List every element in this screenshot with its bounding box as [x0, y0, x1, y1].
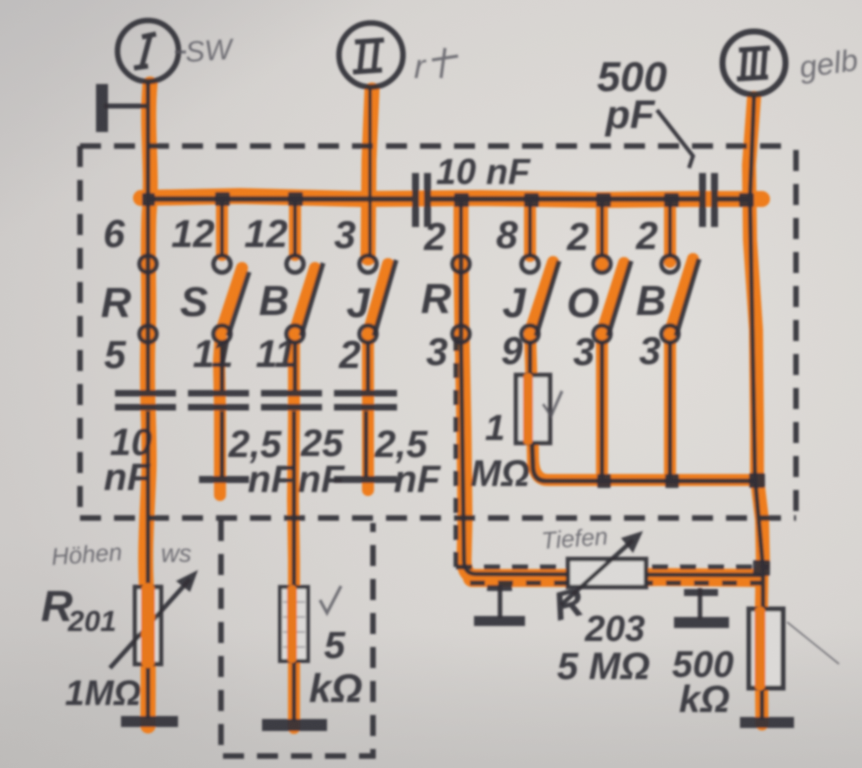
dashed enclosure: Tiefen box left edge — [454, 336, 459, 570]
switch arm B2 open — [676, 259, 699, 336]
wire highlight terminal I column down to ground — [146, 84, 151, 726]
wire terminal I down — [146, 82, 151, 258]
potentiometer R201 arrow — [110, 579, 190, 668]
wire bus left section — [146, 196, 412, 202]
switch arm R2 closed — [459, 256, 464, 342]
wire terminal II down — [368, 88, 372, 258]
annotation check at 1M — [543, 391, 562, 416]
wire cap2 down to bar — [220, 411, 225, 477]
wire highlight inside R201 — [141, 590, 155, 661]
termination bar under S column — [199, 476, 249, 483]
wire highlight switch J column — [368, 264, 388, 490]
switch contact circles top row — [140, 256, 679, 273]
wire highlight switch O column — [602, 263, 624, 478]
chassis link wire — [104, 104, 146, 109]
potentiometer R201 body — [135, 587, 161, 664]
wire 1M down to junction line — [532, 443, 757, 481]
wire highlight switch J2 column through 1M to bus wire — [530, 262, 757, 480]
dashed enclosure: Tiefen box bottom second row — [470, 581, 762, 586]
terminal I numeral — [134, 34, 156, 68]
terminal III circle — [723, 32, 786, 95]
dashed enclosure: switch assembly box bottom edge — [80, 515, 796, 521]
junction dots on bus — [142, 192, 754, 207]
wire R2 column down and Tiefen horizontal — [461, 342, 762, 575]
wire terminal III down — [750, 96, 763, 612]
resistor 500k body — [749, 609, 783, 688]
capacitor 500pF plates — [699, 173, 706, 227]
wire highlight inside 5k — [287, 590, 297, 658]
dashed enclosure: switch assembly box left edge — [77, 146, 83, 518]
ground bar under R201 — [121, 716, 178, 727]
wire cap3 down to 5k — [292, 411, 297, 590]
resistor 5k body — [280, 587, 308, 661]
wire bus right section — [718, 196, 750, 202]
switch arm B open — [301, 263, 323, 336]
potentiometer R203 body — [568, 559, 646, 587]
bus stub wires to contacts — [222, 201, 670, 256]
dashed enclosure: Tiefen box bottom edge — [456, 565, 768, 570]
wire highlight switch B2 column — [670, 259, 693, 478]
wires bottom contacts to capacitors — [148, 342, 368, 390]
resistor 1M body — [516, 375, 550, 443]
capacitor 10nF bus plates — [412, 173, 419, 227]
terminal II numeral — [353, 40, 384, 72]
wire highlight switch S column — [219, 268, 242, 495]
annotation SW — [175, 51, 186, 54]
switch arm S open — [228, 272, 249, 336]
wire highlight switch R2 column to Tiefen wire — [461, 202, 480, 578]
ground stub right of R203 — [698, 588, 703, 619]
wire O column down — [600, 342, 605, 481]
resistor 5k winding marks — [283, 602, 305, 647]
label pointer 500pF — [657, 110, 693, 168]
dashed enclosure: 5k pot box — [221, 520, 373, 756]
terminal II circle — [339, 23, 403, 87]
dashed enclosure: switch assembly box top edge — [80, 143, 794, 149]
wire B2 column down — [668, 342, 673, 481]
junction dots lower line — [597, 473, 770, 576]
switch arm R closed — [146, 256, 151, 342]
switch arm O open — [608, 261, 631, 336]
wire 500k to ground — [760, 688, 765, 720]
capacitor 25nF plates — [261, 390, 322, 397]
switch contact circles bottom row — [140, 326, 679, 343]
wire highlight bus — [141, 196, 762, 200]
switch arm J2 open — [536, 261, 559, 336]
capacitor 2.5nF plates — [188, 390, 249, 397]
wire highlight inside 500k — [755, 612, 766, 685]
ground stub left of R203 — [498, 585, 503, 618]
terminal III numeral — [737, 48, 770, 79]
ground bar under 5k — [262, 719, 327, 731]
wire highlight 500k branch — [761, 568, 762, 724]
wire highlight terminal II drop — [368, 90, 372, 258]
wire J2 contact to 1M resistor — [528, 342, 533, 377]
capacitor 2.5nF second plates — [334, 390, 397, 397]
ground bar under 500k — [740, 717, 794, 728]
potentiometer R203 arrow — [561, 540, 633, 605]
terminal I circle — [118, 21, 179, 82]
termination bar under J column — [334, 476, 397, 483]
chassis bar at terminal I — [96, 84, 108, 132]
wire highlight inside 1M — [523, 378, 533, 440]
annotation check at 5k — [320, 586, 341, 613]
capacitor 10nF plates — [115, 390, 176, 397]
switch arm J open — [374, 260, 396, 336]
dashed enclosure: switch assembly box right edge — [793, 150, 799, 518]
wire highlight terminal III column — [749, 98, 763, 566]
wire bus middle section — [431, 196, 699, 202]
wire cap1 down to R201 — [146, 411, 151, 590]
wire highlight switch B column — [293, 268, 315, 728]
wire 5k to ground — [292, 661, 297, 721]
ground bar left of R203 — [474, 616, 525, 626]
wire cap4 down to bar — [364, 411, 369, 477]
wire R201 to ground — [146, 664, 151, 719]
pencil scratch bottom right — [787, 622, 839, 664]
ground bar right of R203 — [674, 617, 729, 628]
wire highlight bus stubs — [216, 202, 228, 255]
